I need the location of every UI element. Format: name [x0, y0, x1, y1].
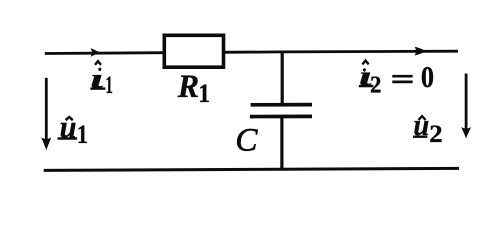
svg-text:C: C — [235, 123, 258, 159]
svg-text:u: u — [413, 108, 429, 142]
svg-text:1: 1 — [105, 72, 113, 99]
svg-text:ι: ι — [90, 64, 104, 94]
svg-text:1: 1 — [77, 121, 88, 150]
svg-text:R: R — [177, 68, 199, 105]
svg-text:2: 2 — [370, 72, 381, 99]
svg-text:0: 0 — [421, 60, 434, 94]
svg-text:1: 1 — [198, 80, 210, 108]
svg-text:u: u — [60, 109, 77, 145]
svg-text:2: 2 — [429, 119, 442, 147]
